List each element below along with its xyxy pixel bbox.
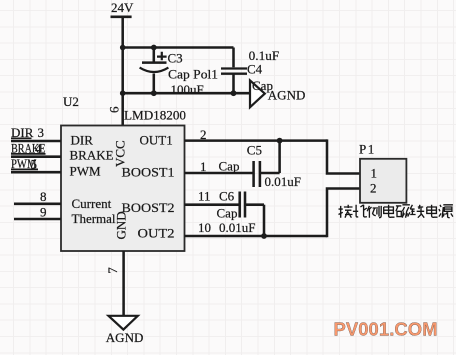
capacitor C6 (Cap 0.01uF) [217, 192, 265, 237]
pin name BOOST1 [122, 165, 175, 180]
node junction C6/OUT2 [261, 233, 267, 239]
svg-text:C4: C4 [247, 61, 263, 76]
value label 0.01uF (C6) [219, 220, 255, 235]
svg-text:2: 2 [370, 181, 377, 196]
svg-text:5: 5 [31, 157, 38, 172]
svg-text:8: 8 [40, 189, 47, 204]
node junction C3 bottom [151, 90, 157, 96]
svg-text:BOOST1: BOOST1 [122, 165, 175, 180]
svg-text:6: 6 [107, 106, 122, 113]
svg-text:AGND: AGND [106, 330, 144, 345]
pin number 10 [198, 220, 211, 235]
wire PWM pin5 [11, 171, 61, 174]
pin name OUT1 [140, 133, 173, 148]
svg-text:11: 11 [198, 189, 211, 204]
wire DIR pin3 [11, 140, 61, 143]
pin name BOOST2 [122, 200, 175, 215]
value label C6 [219, 189, 235, 204]
svg-text:100uF: 100uF [171, 82, 204, 97]
svg-text:PV001.COM: PV001.COM [334, 318, 438, 339]
svg-text:3: 3 [38, 125, 45, 140]
pin name VCC (rotated) [113, 140, 128, 167]
capacitor C4 (0.1uF) [221, 48, 279, 94]
wire P1 pin1 riser [327, 139, 360, 174]
capacitor C5 (Cap 0.01uF) [247, 141, 301, 189]
node junction 24V/bottom rail [120, 90, 126, 96]
pin number 6 (rotated) [107, 106, 122, 113]
svg-text:1: 1 [371, 165, 378, 180]
pin name Current [72, 196, 112, 211]
svg-text:PWM: PWM [70, 164, 102, 179]
svg-text:Current: Current [72, 196, 112, 211]
svg-text:9: 9 [40, 205, 47, 220]
svg-text:Cap Pol1: Cap Pol1 [168, 67, 218, 82]
pin name Thermal [72, 211, 116, 226]
svg-text:24V: 24V [111, 0, 134, 15]
net label PWM underline [11, 168, 38, 170]
pin name DIR [71, 133, 94, 148]
wire BOOST2 pin11 to C6 [185, 203, 240, 206]
svg-text:10: 10 [198, 220, 211, 235]
svg-text:DIR: DIR [71, 133, 94, 148]
net label DIR underline [11, 137, 32, 139]
svg-text:Thermal: Thermal [72, 211, 116, 226]
wire OUT1 pin2 to P1 [185, 139, 328, 142]
pin number 9 [40, 205, 47, 220]
value label Cap (C5) [219, 159, 240, 174]
pin number 11 [198, 189, 211, 204]
svg-text:OUT2: OUT2 [138, 225, 175, 240]
connector P1 [359, 142, 406, 203]
node junction C4 bottom [231, 90, 237, 96]
pin number 4 [35, 141, 42, 156]
wire pin 8 [14, 203, 61, 206]
svg-text:GND: GND [114, 211, 129, 239]
pin number 7 (rotated) [105, 267, 120, 274]
ground AGND (bottom) [106, 316, 144, 345]
svg-text:0.01uF: 0.01uF [265, 174, 301, 189]
wire bottom rail to AGND [123, 92, 250, 95]
svg-text:AGND: AGND [268, 88, 306, 103]
wire top rail to C4 [123, 46, 234, 49]
node junction 24V/top rail [120, 45, 126, 51]
power port 24V [111, 0, 135, 17]
wire BOOST1 pin1 to C5 [185, 172, 254, 175]
pin number 2 [200, 127, 207, 142]
node junction C5/OUT1 [277, 138, 283, 144]
capacitor C3 (Cap Pol1 100uF) [140, 48, 218, 98]
pin number 3 [38, 125, 45, 140]
pin number 5 [31, 157, 38, 172]
pin name GND (rotated) [114, 211, 129, 239]
svg-text:P1: P1 [359, 142, 376, 157]
wire 24V vertical to pin 6 [121, 17, 124, 126]
svg-text:0.01uF: 0.01uF [219, 220, 255, 235]
svg-text:2: 2 [200, 127, 207, 142]
net label BRAKE underline [11, 153, 46, 155]
svg-text:7: 7 [105, 267, 120, 274]
wire P1 pin2 dropper [327, 187, 360, 237]
wire OUT2 pin10 to P1 [185, 235, 328, 238]
pin number 8 [40, 189, 47, 204]
svg-text:C3: C3 [168, 51, 183, 66]
net label BRAKE [11, 141, 46, 156]
wire BRAKE pin4 [11, 155, 61, 158]
svg-text:DIR: DIR [11, 125, 34, 140]
svg-text:U2: U2 [63, 94, 79, 109]
wire GND pin7 [122, 251, 125, 316]
pin number 1 [200, 159, 207, 174]
net label PWM [11, 156, 37, 171]
pin name BRAKE [70, 148, 114, 163]
svg-text:VCC: VCC [113, 140, 128, 167]
svg-text:Cap: Cap [219, 159, 240, 174]
svg-text:BOOST2: BOOST2 [122, 200, 175, 215]
svg-text:4: 4 [35, 141, 42, 156]
svg-text:LMD18200: LMD18200 [124, 107, 186, 122]
svg-text:Cap: Cap [217, 206, 238, 221]
power port AGND (top right) [250, 78, 305, 107]
pin name OUT2 [138, 225, 175, 240]
svg-text:C5: C5 [247, 143, 262, 158]
svg-text:1: 1 [200, 159, 207, 174]
watermark PV001.COM [334, 318, 438, 339]
pin name PWM [70, 164, 102, 179]
annotation 接比例电磁铁电源 (CJK strokes) [339, 205, 453, 218]
svg-text:OUT1: OUT1 [140, 133, 173, 148]
node junction C3 top [151, 45, 157, 51]
net label DIR [11, 125, 34, 140]
wire pin 9 [14, 218, 61, 221]
svg-text:BRAKE: BRAKE [70, 148, 114, 163]
svg-text:C6: C6 [219, 189, 235, 204]
IC U2 (LMD18200 H-bridge driver) body [61, 94, 186, 251]
